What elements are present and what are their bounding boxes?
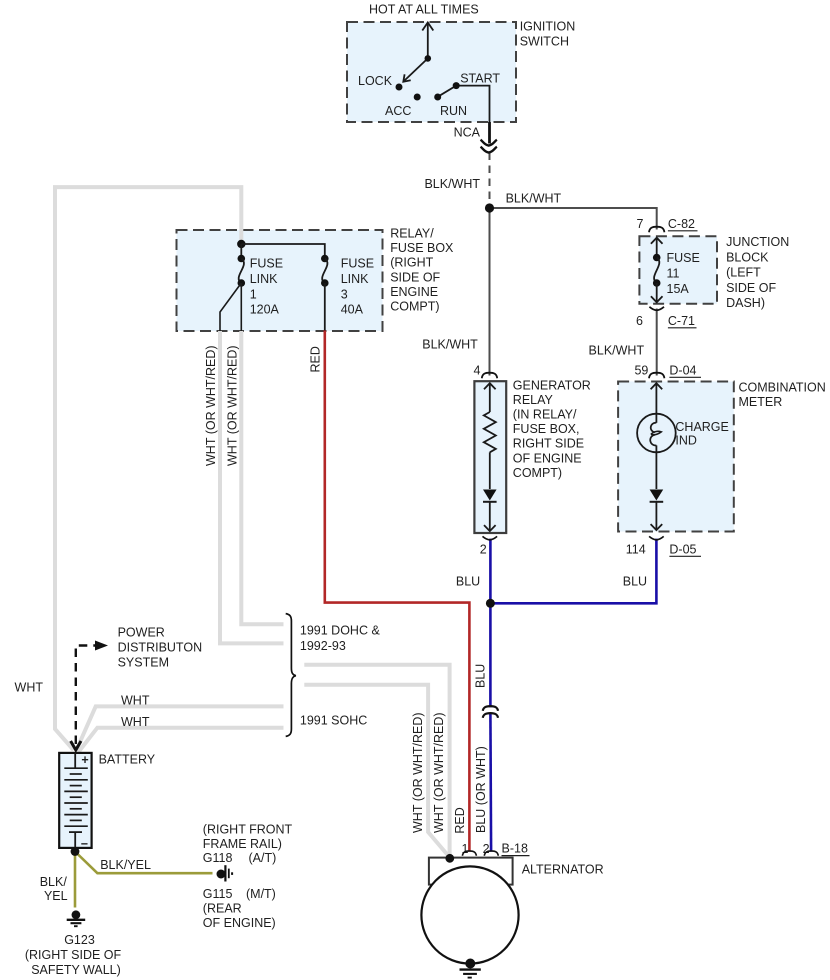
arrowhead right	[95, 641, 108, 651]
svg-text:(M/T): (M/T)	[246, 887, 276, 901]
ground (alternator)	[465, 959, 475, 969]
combination meter box	[618, 382, 734, 532]
wire WHT battery to brace (upper)	[76, 706, 284, 751]
svg-text:BLU (OR WHT): BLU (OR WHT)	[474, 746, 488, 833]
svg-text:FUSE: FUSE	[341, 257, 374, 271]
svg-text:4: 4	[474, 364, 481, 378]
IGNITION-TEXT	[358, 3, 575, 140]
svg-text:OF ENGINE: OF ENGINE	[513, 451, 582, 465]
svg-text:LOCK: LOCK	[358, 74, 393, 88]
battery body	[59, 753, 91, 848]
svg-text:1: 1	[250, 287, 257, 301]
svg-text:SIDE OF: SIDE OF	[390, 270, 440, 284]
BRACE	[286, 614, 381, 737]
arrow up inside meter	[651, 383, 663, 423]
svg-text:OF ENGINE): OF ENGINE)	[203, 916, 276, 930]
svg-text:SYSTEM: SYSTEM	[118, 656, 169, 670]
svg-text:JUNCTION: JUNCTION	[726, 235, 789, 249]
svg-text:LINK: LINK	[341, 272, 369, 286]
fuse F11	[653, 254, 661, 262]
wire junction to fuse link 3	[241, 244, 324, 255]
connector pin 2	[483, 536, 498, 540]
svg-text:BLK/YEL: BLK/YEL	[100, 858, 151, 872]
svg-text:YEL: YEL	[44, 889, 68, 903]
wire ignition feed to HOT AT ALL TIMES (arrow up)	[427, 24, 429, 59]
svg-text:COMBINATION: COMBINATION	[739, 381, 826, 395]
wire WHT brace to alternator (upper)	[304, 665, 449, 855]
wire WHT battery to fuse box junction	[55, 187, 241, 750]
ignition switch box	[347, 22, 516, 122]
wire BLK/WHT C-71 to D-04	[656, 309, 658, 376]
svg-text:ALTERNATOR: ALTERNATOR	[522, 863, 604, 877]
svg-text:WHT: WHT	[121, 715, 150, 729]
wire BLU (OR WHT) connector to alternator pin 2	[489, 714, 492, 852]
svg-text:−: −	[81, 837, 88, 851]
arrow up inside junction block	[651, 238, 663, 254]
svg-text:C-82: C-82	[668, 217, 695, 231]
svg-text:C-71: C-71	[668, 314, 695, 328]
COLORED-WIRES	[75, 330, 656, 908]
node START	[453, 82, 460, 89]
svg-text:COMPT): COMPT)	[513, 466, 562, 480]
svg-text:G118: G118	[203, 851, 233, 865]
svg-text:SAFETY WALL): SAFETY WALL)	[31, 963, 121, 977]
wire BLK/YEL battery to G123 ground	[74, 852, 77, 908]
BOXES-FILLS	[177, 22, 734, 533]
connector C-71	[649, 307, 664, 311]
GENERATOR-RELAY	[456, 364, 591, 589]
svg-text:D-05: D-05	[669, 543, 696, 557]
svg-text:1991 SOHC: 1991 SOHC	[300, 713, 367, 727]
node ACC	[414, 94, 421, 101]
INLINE-CONNECTOR-NCA	[481, 140, 497, 153]
connector inline below NCA	[481, 140, 497, 146]
svg-text:RELAY/: RELAY/	[390, 227, 434, 241]
COMBINATION-METER	[623, 381, 826, 589]
wire START to NCA output	[456, 86, 489, 122]
wire BLK/WHT junction to C-82 junction block	[490, 208, 657, 230]
svg-text:2: 2	[483, 842, 490, 856]
diode (meter)	[655, 445, 657, 489]
svg-text:RIGHT SIDE: RIGHT SIDE	[513, 437, 584, 451]
svg-text:(RIGHT: (RIGHT	[390, 256, 433, 270]
svg-text:11: 11	[667, 266, 680, 280]
wire BLK/WHT dashed connector to junction node	[489, 153, 491, 206]
svg-text:G115: G115	[203, 887, 233, 901]
connector pin 1	[462, 851, 476, 856]
svg-text:BLK/WHT: BLK/WHT	[424, 177, 480, 191]
svg-text:BATTERY: BATTERY	[99, 753, 156, 767]
switch arm from pivot toward LOCK	[405, 58, 428, 80]
wire BLU comb meter D-05 to junction	[490, 539, 656, 604]
wire WHT/RED fuse box to brace (x=241)	[241, 331, 283, 624]
battery + terminal stem	[74, 753, 76, 768]
BLU-TRUNK	[474, 599, 499, 833]
BLKWHT-LABELS-TOP	[422, 177, 644, 358]
svg-text:3: 3	[341, 287, 348, 301]
svg-text:FUSE: FUSE	[250, 257, 283, 271]
svg-text:1991 DOHC &: 1991 DOHC &	[300, 624, 381, 638]
svg-text:BLK/WHT: BLK/WHT	[506, 192, 562, 206]
wire fuse link 3 output	[324, 283, 326, 331]
svg-text:HOT AT ALL TIMES: HOT AT ALL TIMES	[369, 3, 479, 17]
svg-text:+: +	[81, 753, 88, 767]
alternator box	[429, 858, 513, 885]
wire junction to fuse link 1	[240, 244, 242, 255]
svg-text:WHT (OR WHT/RED): WHT (OR WHT/RED)	[226, 345, 240, 466]
svg-text:RED: RED	[453, 807, 467, 833]
svg-text:RED: RED	[309, 346, 323, 372]
generator relay box	[474, 381, 506, 533]
wire BLU relay pin2 to junction	[489, 539, 492, 604]
svg-text:(REAR: (REAR	[203, 902, 242, 916]
node LOCK	[396, 84, 403, 91]
G118-CONNECTOR	[100, 823, 292, 931]
BATTERY	[59, 753, 156, 856]
G123-GROUND	[25, 875, 122, 977]
svg-text:BLK/: BLK/	[40, 875, 68, 889]
DARK-WIRES	[490, 122, 657, 376]
svg-text:(IN RELAY/: (IN RELAY/	[513, 408, 577, 422]
node BLU junction	[486, 599, 495, 608]
svg-text:6: 6	[636, 314, 643, 328]
svg-text:WHT (OR WHT/RED): WHT (OR WHT/RED)	[204, 345, 218, 466]
wire RUN to START	[438, 86, 457, 97]
wire dashed power distribution	[76, 646, 98, 745]
svg-text:BLU: BLU	[456, 575, 480, 589]
connector D-05	[649, 536, 664, 540]
svg-text:(A/T): (A/T)	[249, 851, 277, 865]
svg-text:120A: 120A	[250, 303, 280, 317]
battery plates	[64, 768, 88, 826]
svg-text:ACC: ACC	[385, 104, 411, 118]
svg-text:WHT (OR WHT/RED): WHT (OR WHT/RED)	[432, 712, 446, 833]
svg-text:FUSE: FUSE	[667, 251, 700, 265]
svg-text:CHARGE: CHARGE	[675, 420, 728, 434]
arrow down inside junction block	[651, 283, 663, 302]
alternator body circle	[421, 866, 518, 963]
svg-text:B-18: B-18	[502, 842, 528, 856]
svg-text:START: START	[460, 72, 500, 86]
svg-text:WHT: WHT	[15, 681, 44, 695]
brace 1991 group	[286, 614, 296, 737]
svg-text:RUN: RUN	[440, 104, 467, 118]
junction block box	[639, 236, 717, 303]
node RUN	[434, 94, 441, 101]
POWER-DIST	[15, 626, 203, 751]
svg-text:IND: IND	[675, 434, 697, 448]
svg-text:METER: METER	[739, 395, 783, 409]
connector G118/G115	[217, 870, 226, 879]
svg-text:(RIGHT FRONT: (RIGHT FRONT	[203, 823, 293, 837]
connector pin 2	[484, 851, 498, 856]
connector inline BLU	[483, 706, 498, 711]
arrow up inside relay	[484, 383, 496, 412]
svg-text:BLOCK: BLOCK	[726, 250, 769, 264]
svg-text:(RIGHT SIDE OF: (RIGHT SIDE OF	[25, 948, 122, 962]
svg-text:BLK/WHT: BLK/WHT	[589, 344, 645, 358]
wire NCA ignition to connector (thick black)	[488, 122, 491, 144]
svg-text:1992-93: 1992-93	[300, 639, 346, 653]
wire BLU junction to inline connector	[489, 603, 492, 707]
connector C-82	[649, 227, 664, 233]
svg-text:BLU: BLU	[474, 664, 488, 688]
svg-text:COMPT): COMPT)	[390, 300, 439, 314]
svg-text:IGNITION: IGNITION	[520, 20, 576, 34]
svg-text:2: 2	[480, 543, 487, 557]
battery - terminal stem	[69, 831, 82, 833]
svg-text:7: 7	[637, 217, 644, 231]
svg-text:NCA: NCA	[454, 126, 481, 140]
lamp CHARGE IND	[637, 414, 676, 453]
wire WHT brace to alternator (lower)	[304, 685, 450, 858]
node fuse box junction	[237, 240, 245, 248]
ground G123	[72, 910, 81, 919]
svg-text:G123: G123	[64, 933, 95, 947]
arrow down inside meter	[651, 502, 663, 530]
svg-text:POWER: POWER	[118, 626, 165, 640]
svg-text:RELAY: RELAY	[513, 393, 554, 407]
arrow down inside relay	[484, 502, 496, 531]
JUNCTION-BLOCK	[634, 217, 789, 378]
node pivot	[425, 55, 432, 62]
arrowhead down at battery	[71, 741, 81, 750]
svg-text:59: 59	[634, 364, 648, 378]
svg-text:FRAME RAIL): FRAME RAIL)	[203, 837, 282, 851]
svg-text:SIDE OF: SIDE OF	[726, 281, 776, 295]
svg-text:FUSE BOX,: FUSE BOX,	[513, 422, 580, 436]
connector pin 4	[482, 373, 497, 379]
wire BLK/WHT junction down to generator relay pin 4	[489, 208, 491, 376]
node BLK/WHT junction	[485, 203, 494, 212]
svg-text:SWITCH: SWITCH	[520, 34, 569, 48]
node battery negative terminal	[71, 847, 80, 856]
svg-text:FUSE BOX: FUSE BOX	[390, 241, 454, 255]
svg-text:DASH): DASH)	[726, 296, 765, 310]
wire WHT battery to brace (lower)	[79, 728, 284, 752]
svg-text:LINK: LINK	[250, 272, 278, 286]
IGNITION-INTERNALS	[403, 23, 489, 123]
fuse link 3	[321, 255, 329, 263]
GREY-WIRES	[55, 187, 450, 857]
wire RED fuse link 3 to alternator pin 1	[325, 330, 470, 852]
svg-text:DISTRIBUTON: DISTRIBUTON	[118, 641, 203, 655]
svg-text:BLK/WHT: BLK/WHT	[422, 338, 478, 352]
FUSE-BOX-INTERNALS	[204, 227, 454, 467]
wire WHT/RED fuse box to brace (x=220)	[220, 331, 284, 643]
node WHT junction on alternator	[445, 854, 454, 863]
wire BLK/YEL battery to G118 connector	[75, 852, 213, 874]
svg-text:ENGINE: ENGINE	[390, 285, 438, 299]
svg-text:114: 114	[626, 543, 646, 557]
svg-text:BLU: BLU	[623, 575, 647, 589]
resistor (relay coil)	[484, 412, 496, 452]
svg-text:WHT (OR WHT/RED): WHT (OR WHT/RED)	[411, 712, 425, 833]
svg-text:40A: 40A	[341, 303, 364, 317]
svg-text:D-04: D-04	[669, 364, 696, 378]
relay/fuse box	[177, 230, 383, 331]
svg-text:15A: 15A	[667, 282, 690, 296]
svg-text:(LEFT: (LEFT	[726, 266, 761, 280]
ALTERNATOR	[411, 712, 604, 977]
diode (relay)	[489, 452, 491, 489]
svg-text:GENERATOR: GENERATOR	[513, 378, 591, 392]
fuse link 1	[238, 255, 246, 263]
svg-text:WHT: WHT	[121, 693, 150, 707]
wire fuse link 1 outputs	[220, 283, 241, 331]
